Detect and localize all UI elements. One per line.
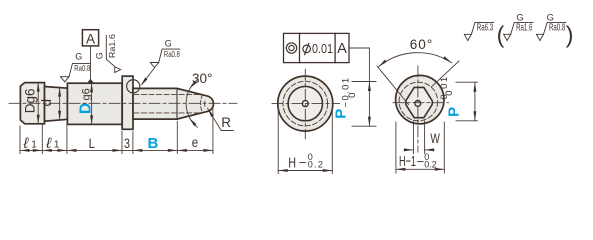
flange: [122, 76, 133, 129]
svg-text:L: L: [89, 135, 96, 151]
W dim: [413, 121, 424, 154]
svg-text:1: 1: [31, 139, 37, 150]
svg-text:): ): [566, 22, 574, 48]
crosshair view3 horizontal: [393, 102, 449, 104]
groove detail circle: [127, 80, 140, 93]
neck d taper: [45, 87, 68, 122]
svg-text:Ra1.6: Ra1.6: [516, 23, 533, 34]
bottom extension lines: [20, 108, 213, 154]
svg-text:W: W: [430, 130, 440, 146]
H-1 dim: [396, 122, 444, 173]
Ra0.8 symbol: [536, 22, 566, 40]
60 deg arc: [379, 53, 452, 67]
svg-text:Ra0.8: Ra0.8: [549, 23, 566, 34]
svg-text:G: G: [547, 13, 554, 23]
datum A box: [82, 30, 98, 46]
H dim view2: [278, 107, 332, 174]
body dim line: [91, 85, 93, 124]
crosshair view2 horizontal: [272, 103, 340, 105]
sphere silhouette hidden arc: [201, 95, 203, 113]
30 deg arc: [186, 80, 197, 128]
svg-text:1: 1: [54, 139, 60, 150]
datum leader: [90, 46, 92, 79]
hidden circle P view3: [399, 82, 438, 121]
diamond lens: [406, 87, 433, 117]
svg-text:0: 0: [444, 91, 455, 96]
crosshair view3 vertical: [417, 66, 419, 152]
svg-text:G: G: [516, 13, 523, 23]
svg-text:G: G: [94, 52, 104, 59]
svg-text:−: −: [299, 155, 307, 170]
svg-text:0: 0: [347, 93, 358, 98]
svg-text:−0.01: −0.01: [341, 76, 352, 107]
hidden line upper: [134, 94, 203, 96]
svg-text:e: e: [192, 134, 199, 150]
svg-text:0.2: 0.2: [308, 160, 324, 170]
surface finish callout Ra0.8 on pin: [150, 49, 180, 68]
center hole view3: [415, 101, 421, 107]
sphere center tick: [204, 101, 206, 106]
dim lines row: [20, 149, 213, 151]
phi symbol: [303, 45, 311, 53]
svg-text:P: P: [445, 107, 462, 117]
svg-text:0.2: 0.2: [424, 159, 437, 169]
Ra1.6 symbol: [504, 22, 533, 40]
P dim view3: [456, 82, 478, 121]
arrows bottom row: [20, 149, 213, 152]
hidden circle P: [283, 81, 328, 126]
svg-text:0.01: 0.01: [312, 41, 333, 56]
svg-text:−: −: [417, 154, 425, 169]
inner circle pin: [288, 86, 322, 120]
head Dg6: [20, 83, 44, 124]
60 deg extension left: [377, 66, 409, 105]
neck dim line: [59, 89, 61, 119]
head dim line: [37, 84, 39, 122]
leader from frame to P dim: [349, 48, 369, 82]
centerline left view: [9, 102, 237, 104]
svg-text:B: B: [148, 135, 159, 152]
outer circle H-1: [396, 75, 444, 123]
svg-text:H: H: [288, 155, 296, 172]
svg-text:R: R: [221, 115, 231, 130]
outer circle H: [278, 76, 333, 131]
cone tangent line: [176, 88, 178, 119]
svg-text:P: P: [332, 109, 349, 119]
svg-text:A: A: [337, 41, 347, 57]
svg-text:3: 3: [124, 135, 130, 151]
svg-text:H−1: H−1: [399, 153, 416, 170]
datum triangle: [87, 79, 94, 83]
svg-text:G: G: [75, 51, 82, 61]
body Dg6: [67, 83, 122, 124]
concentricity frame: [284, 33, 350, 62]
R label and leader: [208, 108, 234, 130]
svg-text:Ra0.8: Ra0.8: [74, 63, 90, 73]
60 deg extension right: [432, 61, 460, 87]
Ra6.3 symbol: [464, 22, 493, 40]
svg-text:Ra1.6: Ra1.6: [107, 34, 117, 58]
P dim view2: [352, 82, 376, 127]
svg-text:D: D: [77, 103, 94, 114]
crosshair view2 vertical: [304, 69, 306, 138]
svg-text:60°: 60°: [410, 37, 433, 52]
svg-text:d: d: [39, 99, 54, 107]
surface finish callout Ra1.6 rotated on flange face: [94, 34, 120, 73]
center hole: [302, 101, 308, 107]
hidden line lower: [134, 112, 203, 114]
svg-text:Ra0.8: Ra0.8: [164, 49, 180, 59]
leader to groove: [142, 69, 154, 85]
svg-text:G: G: [165, 39, 172, 49]
svg-text:A: A: [86, 31, 95, 46]
svg-text:Ra6.3: Ra6.3: [477, 23, 494, 34]
surface finish callout Ra0.8 on body: [61, 63, 91, 82]
svg-text:Dg6: Dg6: [23, 88, 38, 113]
pin B with 30 deg cone and R tip: [133, 88, 213, 119]
svg-text:g6: g6: [81, 88, 93, 100]
